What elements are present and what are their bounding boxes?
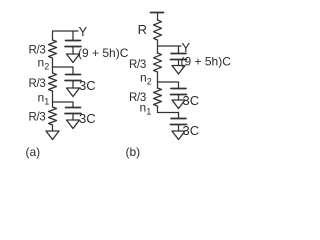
svg-text:(a): (a) [26, 145, 41, 159]
wire C2 to ground (b) [178, 95, 180, 101]
resistor R/3 (b) second [154, 88, 162, 106]
svg-text:R: R [138, 22, 147, 37]
capacitor C3 (b) bottom plate [171, 124, 187, 126]
wire R1 to n2 [52, 58, 54, 73]
svg-text:(9 + 5h)C: (9 + 5h)C [181, 55, 232, 69]
resistor R (b) [154, 20, 162, 40]
svg-text:(9 + 5h)C: (9 + 5h)C [78, 46, 129, 60]
svg-text:R/3: R/3 [129, 59, 146, 71]
capacitor C2 (b) top plate [171, 88, 186, 90]
capacitor C2 (b) bottom plate [171, 94, 187, 96]
svg-text:3C: 3C [183, 123, 200, 138]
wire Y to C1 (b) [178, 46, 180, 54]
wire n2 to C2 (b) [178, 82, 180, 89]
ground C2 (b) [172, 100, 185, 109]
wire Y to C1 (a) [72, 31, 74, 41]
ground C1 (a) [67, 54, 80, 63]
node Y (b) wire [158, 45, 182, 47]
wire R2 to n1 [52, 91, 54, 107]
resistor R/3 (a) second [49, 73, 57, 91]
svg-text:(b): (b) [126, 145, 141, 159]
wire C1 to ground (b) [178, 60, 180, 66]
resistor R/3 (a) first [49, 40, 57, 58]
wire n1 to C3 (a) [72, 102, 74, 108]
svg-text:R/3: R/3 [29, 78, 46, 90]
capacitor C3 (a) top plate [66, 107, 81, 109]
node n2 (b) wire [158, 81, 179, 83]
wire C2 to ground (a) [72, 81, 74, 89]
node n1 (a) wire [53, 101, 74, 103]
resistor R/3 (a) third [49, 107, 57, 125]
capacitor C2 (a) top plate [66, 74, 81, 76]
node n2 (a) wire [53, 66, 74, 68]
wire R to Y (b) [157, 40, 159, 53]
capacitor C3 (a) bottom plate [65, 113, 81, 115]
wire n2 to C2 (a) [72, 67, 74, 75]
svg-text:3C: 3C [79, 78, 96, 93]
top terminal (b) [151, 12, 164, 14]
svg-text:n2: n2 [140, 71, 152, 87]
svg-text:n1: n1 [38, 91, 50, 107]
svg-text:3C: 3C [79, 111, 96, 126]
capacitor C1 (b) bottom plate [171, 59, 187, 61]
capacitor C1 (b) top plate [171, 53, 186, 55]
wire n1 to C3 (b) [178, 113, 180, 119]
ground C1 (b) [172, 66, 185, 75]
capacitor C1 (a) top plate [66, 40, 81, 42]
ground C3 (a) [67, 120, 80, 129]
svg-text:3C: 3C [183, 93, 200, 108]
wire R3 to ground [52, 125, 54, 131]
wire n1 elbow (b) [158, 106, 179, 113]
svg-text:n2: n2 [38, 56, 50, 72]
wire C3 to ground (a) [72, 114, 74, 121]
node Y (a) wire [53, 31, 79, 40]
capacitor C2 (a) bottom plate [65, 80, 81, 82]
svg-text:R/3: R/3 [29, 112, 46, 124]
ground bottom (a) [46, 131, 59, 140]
wire R/3 to n2 (b) [157, 72, 159, 88]
resistor R/3 (b) first [154, 53, 162, 72]
capacitor C3 (b) top plate [171, 118, 186, 120]
capacitor C1 (a) bottom plate [65, 46, 81, 48]
wire C3 to ground (b) [178, 125, 180, 132]
ground C3 (b) [172, 131, 185, 140]
wire C1 to ground (a) [72, 47, 74, 55]
ground C2 (a) [67, 88, 80, 97]
svg-text:n1: n1 [140, 101, 152, 117]
svg-text:Y: Y [79, 24, 88, 39]
